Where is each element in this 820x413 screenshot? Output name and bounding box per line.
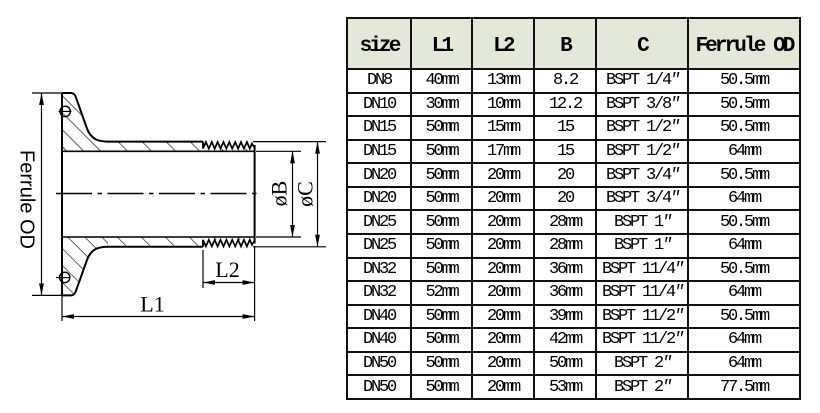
L2 extension line <box>202 250 204 288</box>
bore line bottom <box>62 236 255 238</box>
pipe end face <box>254 145 256 244</box>
gasket circle top <box>60 106 70 116</box>
centerline <box>56 193 258 195</box>
flange face extension line down <box>61 296 63 321</box>
thread zigzag top <box>203 142 255 149</box>
thread zigzag bottom <box>203 240 255 247</box>
oB extension bottom <box>256 236 301 238</box>
end face extension line down <box>254 246 256 321</box>
tick through bottom circle <box>56 277 71 279</box>
svg-text:L1: L1 <box>140 292 164 317</box>
hatch fill: flange section top <box>62 93 108 151</box>
L1 dimension line <box>62 316 255 318</box>
svg-text:øC: øC <box>293 181 318 207</box>
tube top surface <box>107 141 203 143</box>
oB dimension line <box>292 151 294 237</box>
oC extension bottom <box>253 246 326 248</box>
flange bottom outline <box>62 247 108 296</box>
specification table <box>346 17 801 400</box>
tick through top circle <box>59 110 72 112</box>
flange face line <box>61 93 63 295</box>
bore line top <box>62 150 255 152</box>
hatch fill: tube wall bottom <box>108 237 255 247</box>
technical drawing of ferrule fitting <box>0 0 345 413</box>
oC dimension line <box>317 142 319 247</box>
Ferrule OD extension line bottom <box>32 294 62 296</box>
hatch fill: tube wall top <box>108 142 255 152</box>
oB extension top <box>256 150 301 152</box>
hatch fill: flange section bottom <box>62 237 108 295</box>
oC extension top <box>253 141 326 143</box>
svg-text:L2: L2 <box>215 257 239 282</box>
thread start step top <box>202 142 204 149</box>
thread start step bottom <box>202 240 204 247</box>
Ferrule OD extension line top <box>32 92 62 94</box>
Ferrule OD dimension line <box>41 93 43 295</box>
svg-text:øB: øB <box>267 181 292 207</box>
flange top outline <box>62 93 108 142</box>
tube bottom surface <box>107 246 203 248</box>
gasket circle bottom <box>59 272 69 282</box>
svg-text:Ferrule OD: Ferrule OD <box>16 150 38 249</box>
L2 dimension line <box>203 282 255 284</box>
